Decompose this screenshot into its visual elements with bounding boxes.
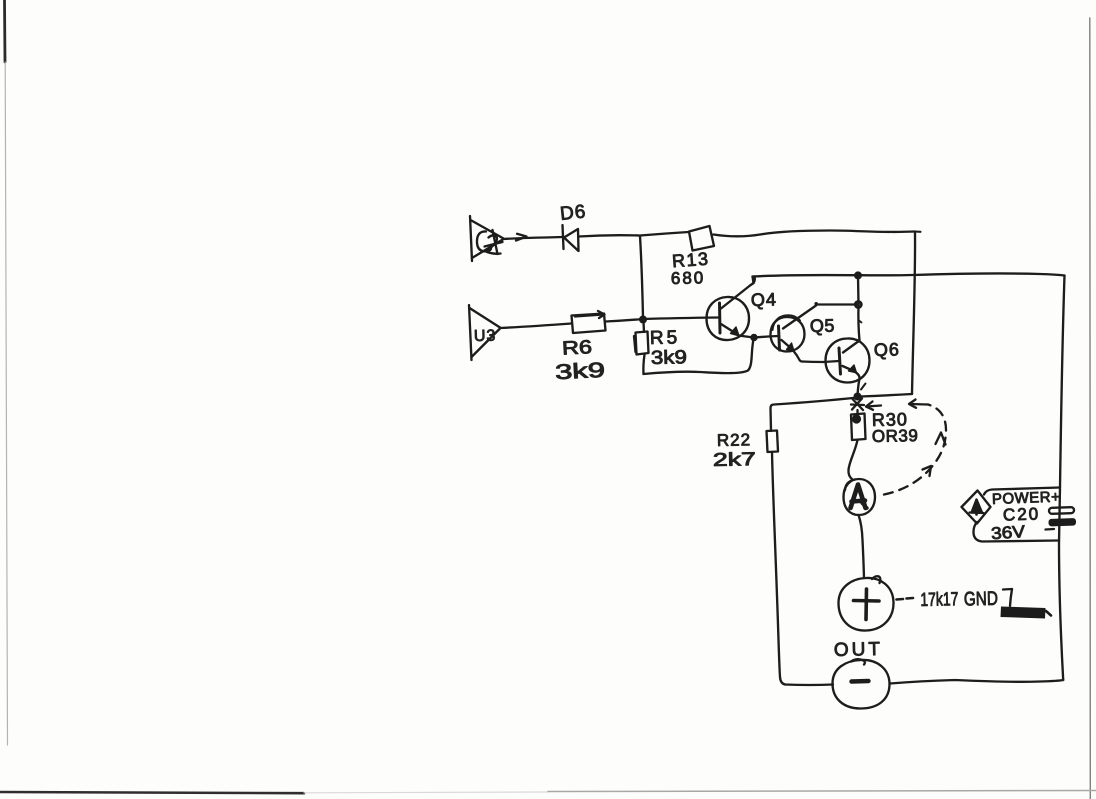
wire vertical from D6 node: [640, 236, 643, 318]
buffer U3 triangle: [469, 305, 500, 360]
wire R5 bottom to riser: [643, 355, 751, 375]
label Q6: [874, 339, 900, 360]
wire U3 to R6: [500, 324, 572, 329]
svg-text:36V: 36V: [990, 522, 1026, 543]
node dot at R5 top: [639, 316, 647, 324]
wire riser from Q4 emitter node: [752, 338, 754, 359]
label Q5: [810, 315, 835, 336]
svg-text:Q4: Q4: [751, 289, 777, 310]
node dot top rail: [854, 271, 862, 279]
stray mark below Q6: [861, 384, 866, 390]
node dot above R30: [854, 393, 862, 401]
out minus terminal: [833, 659, 890, 708]
wire R13 to top-right corner: [714, 231, 916, 237]
svg-text:3k9: 3k9: [555, 359, 606, 385]
label OUT: [834, 639, 884, 661]
transistor Q4: [707, 277, 755, 341]
svg-text:R5: R5: [650, 327, 681, 349]
label R13 680: [671, 249, 710, 288]
arrow left 1: [866, 402, 881, 410]
node dot Q5 collector: [855, 302, 861, 308]
label R22 2k7: [713, 430, 756, 470]
wire Q5 emitter to Q6 base: [802, 360, 824, 363]
resistor R22: [767, 431, 779, 453]
wire node to Q4 base: [643, 318, 718, 320]
scan edge right: [1089, 18, 1092, 799]
scan edge bottom: [0, 791, 1096, 794]
svg-text:OUT: OUT: [834, 639, 884, 661]
wire Q5 collector: [783, 302, 859, 329]
wire right outer vertical: [1059, 276, 1065, 681]
scan edge left: [5, 0, 8, 745]
svg-text:D6: D6: [559, 201, 587, 225]
wire node to R22 top: [771, 398, 858, 432]
svg-text:OR39: OR39: [872, 426, 919, 446]
wire inner box right vertical: [912, 232, 921, 395]
resistor R30: [851, 414, 866, 441]
wire inner top rail y275: [753, 273, 1065, 283]
label 17k17 GND: [920, 588, 998, 611]
wire R30 to ammeter: [848, 440, 857, 480]
X mark on wire: [851, 399, 864, 411]
svg-text:R6: R6: [561, 337, 592, 360]
wire stub to R30: [856, 410, 858, 414]
node dot Q4 emitter: [750, 334, 757, 341]
out plus terminal: [839, 576, 894, 630]
power diamond: [962, 491, 991, 524]
svg-text:Q5: Q5: [810, 315, 835, 336]
arrow left 2: [909, 400, 928, 408]
label D6: [559, 201, 587, 225]
label R6 3k9: [555, 337, 606, 384]
wire R22 down to out minus: [772, 452, 833, 685]
dashed feedback arc: [884, 405, 946, 495]
diode D6: [563, 225, 579, 251]
label R30 OR39: [872, 409, 919, 446]
svg-text:Q6: Q6: [874, 339, 900, 360]
ground symbol: [1001, 589, 1052, 619]
resistor R6: [572, 311, 606, 333]
label R5 3k9: [650, 327, 687, 369]
buffer U2 triangle: [470, 216, 504, 261]
ammeter A: [844, 479, 876, 515]
svg-text:680: 680: [671, 268, 706, 288]
svg-text:U3: U3: [474, 328, 497, 345]
dashes to GND note: [897, 598, 914, 600]
wire minus to bottom right corner: [890, 680, 1063, 684]
svg-text:17k17: 17k17: [920, 589, 958, 611]
transistor Q6: [824, 338, 870, 396]
power box: [974, 488, 1061, 542]
resistor R5: [634, 322, 649, 355]
dashed arc arrowheads: [923, 433, 946, 477]
label POWER+ C20 36V: [990, 489, 1060, 544]
svg-text:3k9: 3k9: [651, 347, 687, 369]
wire R6 to node: [606, 319, 644, 322]
wire ammeter to plus: [859, 515, 865, 578]
capacitor C20 plates: [1046, 507, 1077, 529]
label Q4: [751, 289, 777, 310]
svg-text:GND: GND: [964, 588, 998, 611]
wire U2 to D6 with arrow: [504, 234, 563, 241]
wire inner box bottom: [860, 394, 912, 397]
resistor R13: [689, 226, 714, 251]
wire vertical x858: [858, 276, 862, 341]
svg-text:R22: R22: [717, 430, 752, 450]
transistor Q5: [754, 315, 805, 361]
buffer U2 label C2: [477, 230, 503, 254]
svg-text:2k7: 2k7: [713, 448, 756, 470]
wire D6 to R13: [579, 232, 689, 237]
label U3: [474, 328, 497, 345]
